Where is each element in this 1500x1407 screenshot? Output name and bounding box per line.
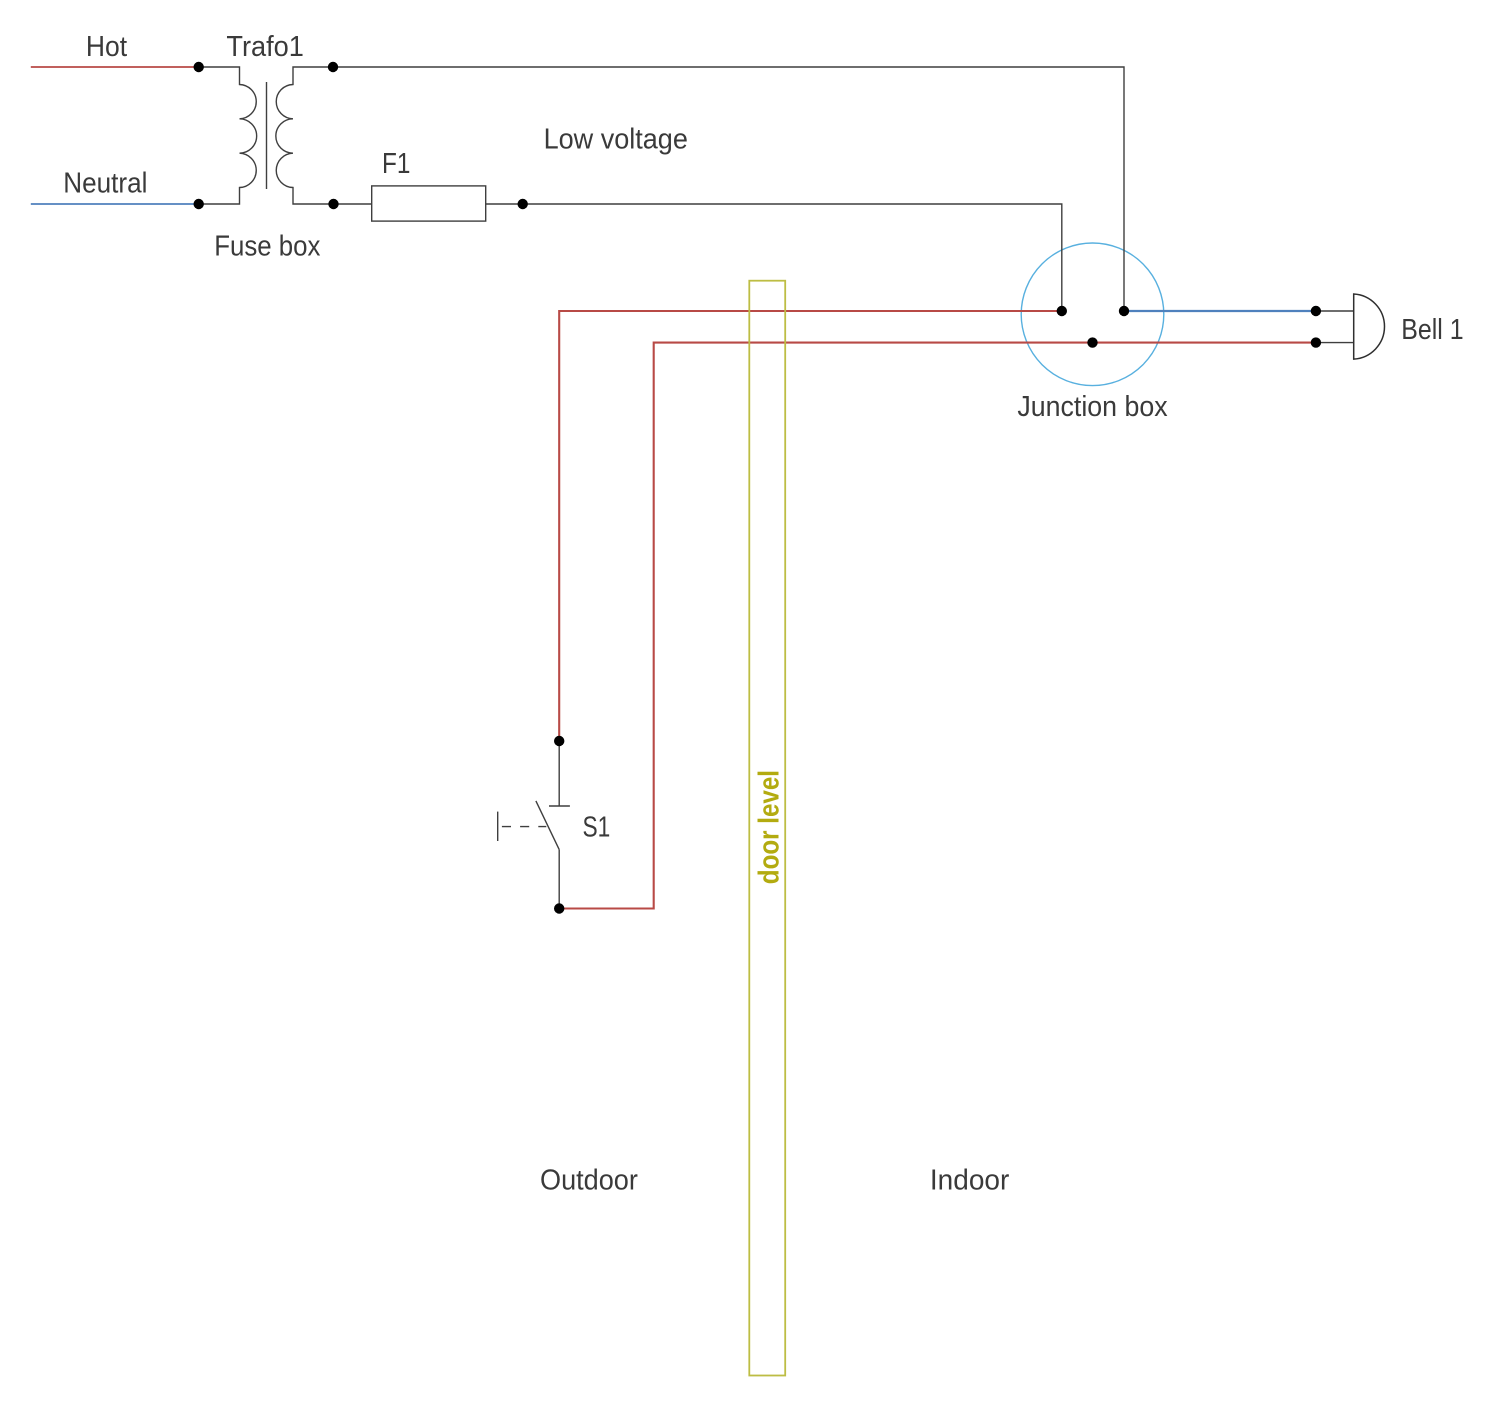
svg-text:Low voltage: Low voltage — [544, 123, 688, 155]
svg-text:S1: S1 — [583, 812, 611, 844]
svg-text:Fuse box: Fuse box — [214, 231, 321, 263]
svg-text:Junction box: Junction box — [1017, 391, 1168, 423]
svg-text:door level: door level — [754, 770, 786, 884]
svg-text:Bell 1: Bell 1 — [1401, 314, 1463, 346]
svg-text:Hot: Hot — [86, 31, 127, 63]
svg-text:Neutral: Neutral — [63, 168, 147, 200]
svg-text:F1: F1 — [382, 148, 410, 180]
svg-text:Trafo1: Trafo1 — [226, 31, 304, 63]
svg-text:Outdoor: Outdoor — [540, 1165, 638, 1197]
svg-text:Indoor: Indoor — [930, 1165, 1010, 1197]
